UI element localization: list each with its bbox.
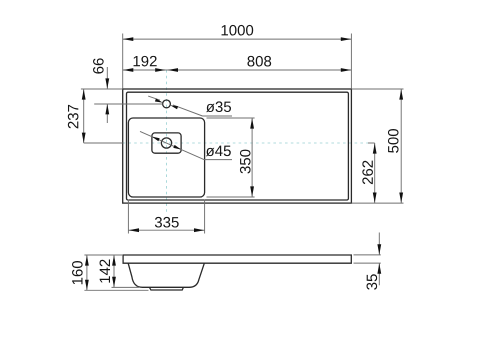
centerline horizontal (plan) [123, 142, 369, 144]
dim 66 text [93, 58, 104, 73]
extension below basin left (335) [127, 200, 129, 234]
dim 808 text [247, 56, 271, 67]
dim 335 line [128, 229, 204, 231]
extension below basin right (335) [204, 200, 206, 234]
side view bowl [128, 263, 204, 287]
dim 237 text [68, 105, 79, 129]
dim 237 line [83, 89, 85, 143]
dim 192 text [134, 56, 157, 67]
basin bottom extension right (350) [207, 196, 255, 198]
label d45 text [206, 146, 231, 157]
drain circle d45 [161, 138, 171, 148]
centerline grey stub right (262) [368, 142, 375, 144]
top edge extension right (500) [351, 88, 403, 90]
side view slab [123, 255, 351, 263]
dim 500 text [388, 129, 399, 153]
dim 500 line [400, 89, 402, 203]
slab top extension right (35) [354, 254, 381, 256]
bowl bottom extension left (142) [112, 286, 140, 288]
basin top extension right (350) [207, 117, 255, 119]
leader d45 [140, 131, 204, 159]
dim 1000 line [123, 38, 352, 40]
label d35 text [206, 101, 231, 112]
centerline extension left (237) [84, 142, 123, 144]
dim 66 line [106, 67, 108, 89]
slab top extension left (160/142) [84, 254, 123, 256]
dim 160 text [72, 261, 83, 284]
faucet centerline extension left [94, 103, 162, 105]
dim 160 line [86, 255, 88, 290]
dim 142 line [113, 255, 115, 287]
dim 35 text [367, 274, 378, 289]
dim 350 text [240, 150, 251, 174]
faucet hole circle d35 [163, 100, 171, 108]
drain rect [152, 133, 181, 153]
dim 35 lower tail [378, 263, 380, 285]
dim 1000 text [222, 25, 254, 36]
dim 35 upper tail [378, 233, 380, 255]
bottom edge extension right (500/262) [351, 202, 403, 204]
dim 142 text [100, 260, 110, 283]
side view drain bump [150, 287, 184, 290]
dim 335 text [155, 217, 179, 228]
countertop inner rim [127, 92, 349, 200]
extension line right of 1000 dim [350, 34, 352, 89]
dim 262 line [374, 143, 376, 203]
basin rounded rect 335x350 [128, 118, 204, 197]
dim 192/808 line [123, 69, 352, 71]
top edge extension left [81, 88, 123, 90]
extension line left of 1000 dim [122, 34, 124, 89]
countertop outer rect (plan view 1000x500) [123, 89, 352, 203]
centerline vertical (plan) [166, 70, 168, 214]
bump bottom extension left (160) [84, 289, 148, 291]
dim 262 text [362, 161, 373, 185]
dim 350 line [251, 118, 253, 197]
slab bottom extension right (35) [354, 262, 381, 264]
leader d35 [148, 96, 160, 100]
